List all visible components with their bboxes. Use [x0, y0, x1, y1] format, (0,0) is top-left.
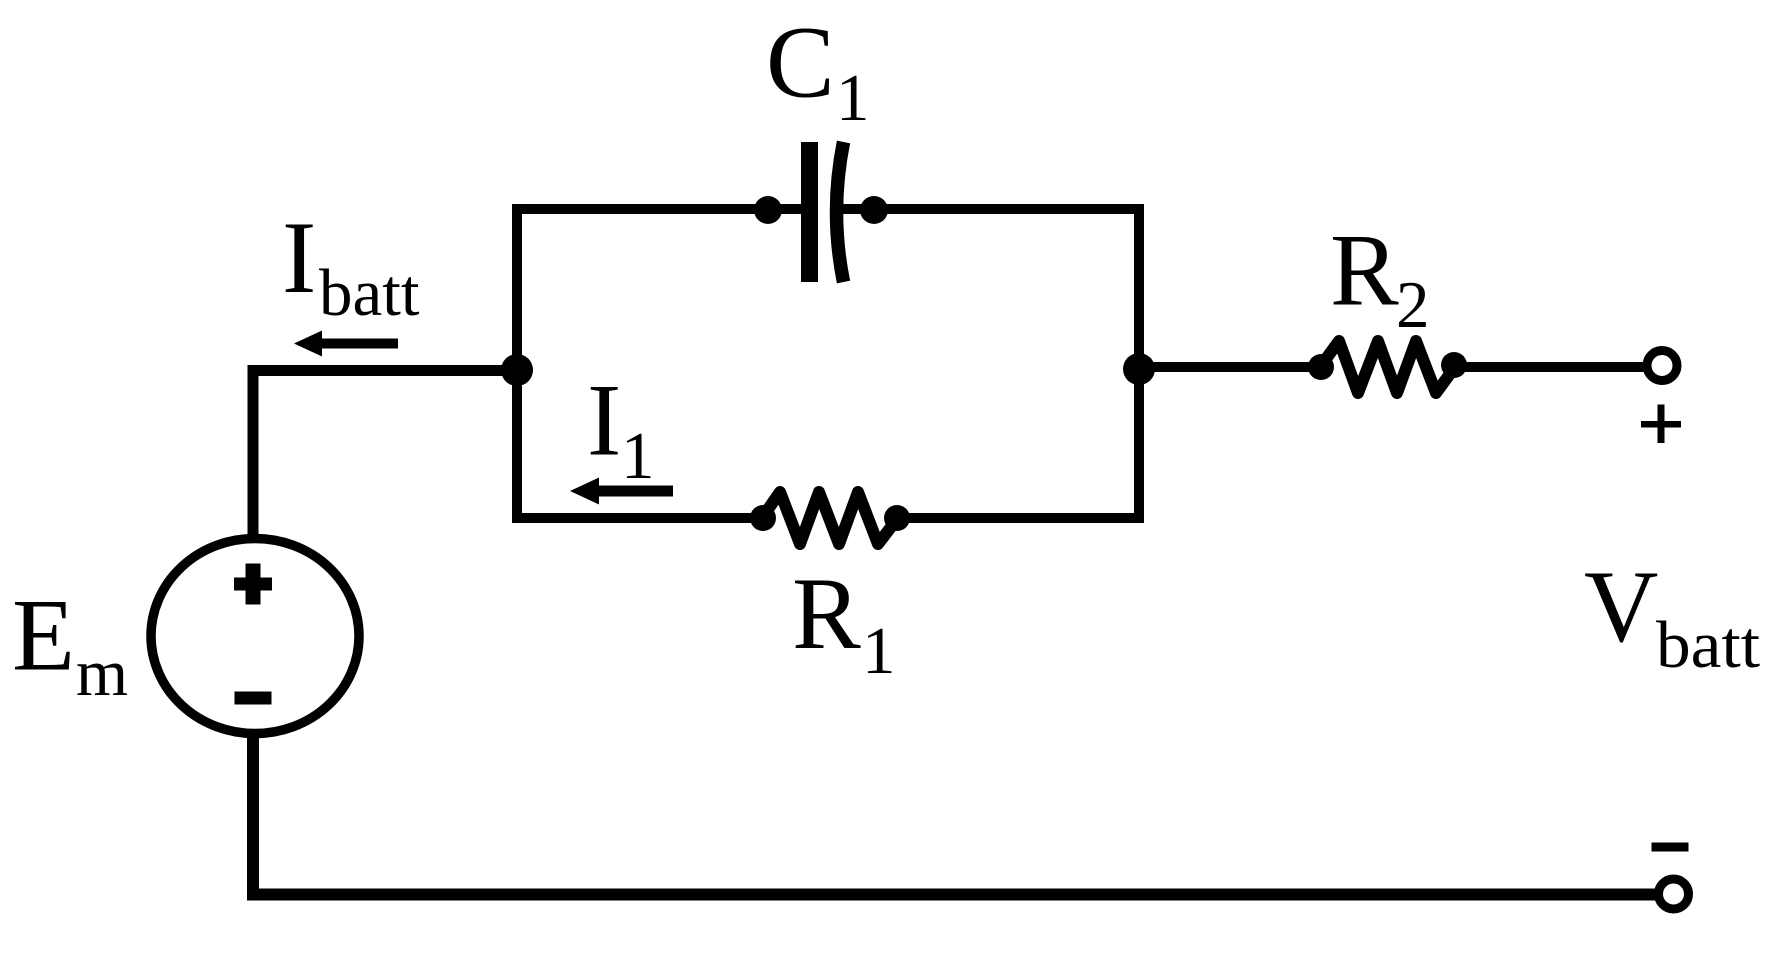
wire: bottom branch right segment [892, 513, 1144, 523]
svg-text:C: C [766, 6, 835, 120]
svg-text:batt: batt [1656, 608, 1760, 682]
wire: R2 to positive terminal [1450, 362, 1647, 372]
current arrow I1 [570, 478, 673, 505]
wire: top branch left segment [512, 204, 806, 214]
svg-text:R: R [792, 557, 861, 671]
positive terminal [1647, 351, 1677, 381]
negative terminal [1659, 879, 1689, 909]
svg-text:E: E [12, 579, 75, 693]
svg-text:I: I [282, 201, 316, 315]
resistor R2 [1320, 341, 1455, 393]
wire: node B to R2 [1139, 362, 1324, 372]
svg-text:batt: batt [319, 256, 420, 330]
svg-text:1: 1 [862, 614, 896, 688]
wire: source top lead and middle wire to node A [253, 371, 512, 536]
current arrow Ibatt [294, 331, 398, 357]
terminal minus sign [1652, 843, 1689, 852]
wire: right vertical of parallel block [1134, 204, 1144, 523]
voltage source Em circle [151, 539, 359, 734]
svg-text:1: 1 [621, 419, 655, 493]
svg-text:I: I [587, 364, 621, 478]
node B junction dot [1123, 353, 1155, 385]
svg-text:2: 2 [1396, 268, 1430, 342]
wire: bottom branch left segment [512, 513, 768, 523]
wire: source bottom lead and bottom return wire [253, 736, 1655, 895]
node A junction dot [501, 354, 533, 386]
wire: left vertical of parallel block [512, 204, 522, 523]
terminal plus sign [1641, 405, 1681, 444]
capacitor C1 [754, 142, 888, 282]
resistor R1 [762, 492, 898, 544]
svg-text:R: R [1330, 214, 1399, 328]
source minus sign [235, 692, 272, 705]
wire: top branch right segment [840, 204, 1144, 214]
svg-text:m: m [76, 636, 128, 710]
source plus sign [234, 564, 272, 605]
svg-text:1: 1 [836, 61, 870, 135]
svg-text:V: V [1584, 550, 1658, 664]
